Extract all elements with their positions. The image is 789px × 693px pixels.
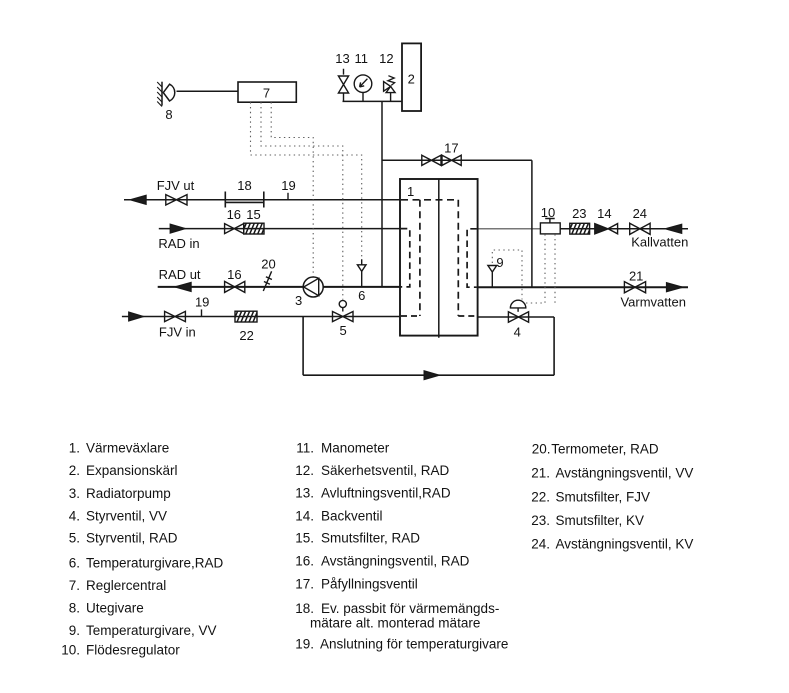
arrow bottom loop [424,371,439,380]
sensor 9 temperature VV [488,266,497,288]
svg-text:FJV in: FJV in [159,325,196,340]
svg-text:Termometer, RAD: Termometer, RAD [551,441,659,456]
wire filling line 17 [382,159,532,161]
arrow FJV ut [131,195,147,204]
svg-text:9: 9 [496,255,503,270]
svg-text:5.: 5. [69,531,80,546]
svg-text:22.: 22. [531,489,550,504]
arrow FJV in [129,312,143,321]
svg-text:18: 18 [237,178,251,193]
svg-text:11: 11 [355,51,369,66]
svg-text:16: 16 [227,207,241,222]
svg-text:10.: 10. [61,643,80,658]
wire sensor 8 to box 7 [177,90,239,92]
expansion vessel 2 [402,43,421,111]
valve 16 RAD ut [225,281,245,292]
svg-text:Backventil: Backventil [321,508,383,523]
control line box 7 to sensor 6 [251,102,362,259]
svg-text:19: 19 [195,295,209,310]
control line regulator 10 to valve 4 [526,234,545,303]
heat exchanger U1 body [400,179,478,336]
svg-text:8.: 8. [69,601,80,616]
svg-text:23.: 23. [531,513,550,528]
svg-text:3: 3 [295,293,302,308]
svg-text:16.: 16. [295,553,314,568]
wire right riser to valve 4 [553,317,555,375]
svg-text:7: 7 [263,86,270,101]
svg-text:5: 5 [339,323,346,338]
pump P3 [303,277,323,297]
svg-text:13: 13 [335,51,349,66]
arrow RAD in [170,224,185,233]
control line box 7 to pump 3 [271,102,313,276]
svg-text:19: 19 [281,178,295,193]
svg-text:22: 22 [239,328,253,343]
svg-text:3.: 3. [69,486,80,501]
svg-text:21.: 21. [531,466,550,481]
wire Varmvatten line [478,286,688,288]
svg-text:Styrventil, RAD: Styrventil, RAD [86,531,178,546]
valve 4 styrventil VV [508,312,528,322]
svg-text:6: 6 [358,288,365,303]
valve 17b filling [442,155,461,165]
arrow Kallvatten [666,224,682,233]
svg-text:Varmvatten: Varmvatten [620,295,686,310]
valve 24 shutoff KV [630,223,650,234]
control line box 7 to valve 5 [261,102,343,299]
svg-text:Smutsfilter, RAD: Smutsfilter, RAD [321,531,420,546]
svg-text:12: 12 [379,51,393,66]
svg-text:24.: 24. [531,537,550,552]
svg-text:Ev. passbit för värmemängds-: Ev. passbit för värmemängds- [321,601,499,616]
svg-text:Avstängningsventil, RAD: Avstängningsventil, RAD [321,553,470,568]
svg-text:7.: 7. [69,578,80,593]
svg-text:Utegivare: Utegivare [86,601,144,616]
heat exchanger primary dashed top run [401,199,458,201]
svg-text:4: 4 [514,325,521,340]
svg-text:Smutsfilter, FJV: Smutsfilter, FJV [556,489,651,504]
wire Kallvatten line [560,228,688,230]
wire safety manifold [343,100,403,102]
svg-text:FJV ut: FJV ut [157,178,195,193]
svg-text:Manometer: Manometer [321,441,390,456]
svg-text:Radiatorpump: Radiatorpump [86,486,171,501]
svg-text:20: 20 [261,257,275,272]
heat exchanger primary dashed left coil [419,200,421,316]
svg-text:Styrventil, VV: Styrventil, VV [86,509,167,524]
svg-text:Avluftningsventil,RAD: Avluftningsventil,RAD [321,486,451,501]
svg-text:Avstängningsventil, VV: Avstängningsventil, VV [556,466,694,481]
svg-text:14.: 14. [295,508,314,523]
svg-text:Temperaturgivare,RAD: Temperaturgivare,RAD [86,556,224,571]
sensor 6 temperature RAD [361,259,363,287]
svg-text:Avstängningsventil, KV: Avstängningsventil, KV [556,537,694,552]
wire expansion riser [381,101,383,287]
svg-text:Anslutning för temperaturgivar: Anslutning för temperaturgivare [320,636,508,651]
manometer 11 [354,75,372,93]
wire FJV in line [122,316,400,318]
heat exchanger center plate [438,179,440,338]
filter 15 [244,223,264,234]
control line sensor 9 to valve 4 [492,250,522,300]
valve FJV in shutoff [165,311,186,321]
svg-text:9.: 9. [69,623,80,638]
svg-text:2.: 2. [69,463,80,478]
svg-text:1: 1 [407,184,414,199]
valve 21 shutoff VV [624,282,645,293]
svg-text:4.: 4. [69,509,80,524]
wire RAD in line [159,228,400,230]
svg-text:Expansionskärl: Expansionskärl [86,463,178,478]
svg-text:21: 21 [629,269,643,284]
svg-text:20.: 20. [532,441,551,456]
svg-text:11.: 11. [296,441,314,456]
heat exchanger primary dashed bottom right [458,315,476,317]
svg-text:Kallvatten: Kallvatten [631,235,688,250]
svg-text:12.: 12. [295,463,314,478]
svg-text:Smutsfilter, KV: Smutsfilter, KV [556,513,645,528]
arrow Varmvatten [667,283,683,292]
svg-text:15.: 15. [295,531,314,546]
flow regulator 10 [540,223,560,234]
svg-text:Temperaturgivare, VV: Temperaturgivare, VV [86,623,217,638]
wire FJV ut line [124,199,400,201]
wire filling drop to Varmvatten [531,160,533,287]
svg-text:13.: 13. [295,486,314,501]
heat exchanger secondary dashed VV coil [467,229,477,287]
valve 5 styrventil RAD [333,312,354,322]
wire bottom loop [303,374,554,376]
svg-text:10: 10 [541,205,555,220]
svg-text:16: 16 [227,267,241,282]
heat exchanger primary dashed bottom left [401,315,420,317]
svg-text:15: 15 [246,207,260,222]
svg-text:6.: 6. [69,556,80,571]
svg-text:Värmeväxlare: Värmeväxlare [86,441,169,456]
svg-text:18.: 18. [295,601,314,616]
svg-text:Säkerhetsventil, RAD: Säkerhetsventil, RAD [321,463,450,478]
wire valve 4 line [478,316,554,318]
safety valve 12 [384,82,396,102]
svg-text:17.: 17. [295,577,314,592]
heat exchanger primary dashed right coil [457,200,459,316]
valve 17a filling [422,155,441,165]
svg-text:2: 2 [408,72,415,87]
svg-text:RAD in: RAD in [158,236,199,251]
check valve 14 [595,224,608,234]
svg-text:Påfyllningsventil: Påfyllningsventil [321,577,418,592]
node 19 tap on FJV ut [287,193,289,200]
svg-text:19.: 19. [295,636,314,651]
passbit 18 [225,192,263,208]
filter 23 [570,223,590,234]
control line regulator 10 capillary [554,234,556,303]
heat exchanger secondary dashed RAD coil [401,229,410,287]
thermometer 20 [263,271,272,291]
wire RAD ut line [158,286,400,288]
valve 16 RAD in [225,224,244,234]
controller box 7 [238,82,296,102]
svg-text:RAD ut: RAD ut [159,267,201,282]
svg-text:24: 24 [633,206,647,221]
wire branch down from FJV in [302,317,304,376]
svg-text:mätare alt. monterad mätare: mätare alt. monterad mätare [310,616,480,631]
outdoor sensor 8 [161,82,163,106]
svg-text:1.: 1. [69,441,80,456]
svg-text:8: 8 [165,107,172,122]
svg-text:Flödesregulator: Flödesregulator [86,643,180,658]
air vent valve 13 [338,69,348,102]
svg-text:23: 23 [572,206,586,221]
svg-text:Reglercentral: Reglercentral [86,578,166,593]
arrow RAD ut [175,283,191,292]
svg-text:17: 17 [444,141,458,156]
wire Kallvatten line faint part [478,228,541,230]
node 19 tap on FJV in [201,309,203,316]
svg-text:14: 14 [597,206,611,221]
filter 22 [235,311,257,322]
valve FJV ut shutoff [166,195,187,205]
